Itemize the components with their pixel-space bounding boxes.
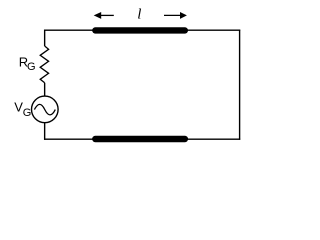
wire: resistor to source (44, 83, 46, 97)
resistor RG (40, 46, 48, 83)
arrow left (length dimension, pointing left) (94, 12, 114, 19)
arrow right (length dimension, pointing right) (164, 12, 187, 19)
svg-text:G: G (23, 107, 32, 119)
wire: top-right horizontal (185, 29, 240, 31)
svg-text:G: G (27, 61, 36, 73)
wire: left vertical (top corner down to resistor top) (44, 30, 46, 47)
wire: source to bottom-left corner (44, 123, 46, 140)
source VG (sinusoidal generator) circle (32, 96, 59, 123)
svg-text:l: l (137, 7, 141, 23)
wire: right vertical (239, 30, 241, 140)
transmission line: top conductor (95, 27, 185, 33)
wire: bottom-right horizontal (185, 138, 240, 140)
wire: top-left horizontal (generator branch to line input) (44, 29, 96, 31)
transmission line: bottom conductor (95, 136, 185, 142)
sine wave inside source (34, 104, 55, 115)
wire: bottom-left horizontal (44, 138, 96, 140)
